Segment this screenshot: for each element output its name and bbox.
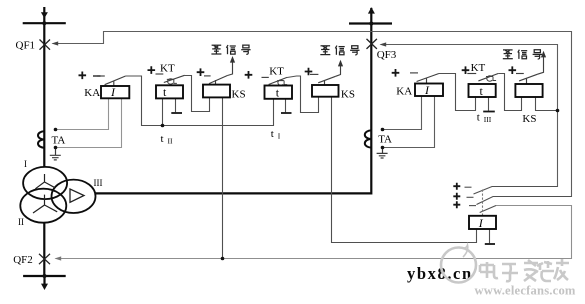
svg-text:II: II	[18, 217, 24, 227]
svg-text:KS: KS	[232, 89, 246, 101]
svg-text:KT: KT	[269, 65, 284, 77]
svg-text:t: t	[161, 133, 164, 145]
svg-text:QF3: QF3	[377, 49, 397, 61]
svg-text:I: I	[24, 159, 27, 169]
svg-text:t: t	[477, 112, 480, 124]
svg-text:KT: KT	[471, 62, 486, 74]
svg-text:t: t	[271, 128, 274, 140]
svg-text:KA: KA	[84, 87, 100, 99]
svg-text:II: II	[168, 137, 173, 146]
svg-text:TA: TA	[378, 133, 392, 145]
svg-text:QF1: QF1	[16, 39, 36, 51]
svg-text:KS: KS	[522, 113, 536, 125]
svg-text:QF2: QF2	[13, 254, 33, 266]
svg-text:III: III	[484, 115, 492, 124]
svg-text:KT: KT	[160, 62, 175, 74]
svg-text:www.elecfans.com: www.elecfans.com	[475, 284, 576, 298]
svg-text:TA: TA	[52, 135, 66, 147]
svg-text:KA: KA	[396, 86, 412, 98]
svg-text:III: III	[94, 178, 103, 188]
svg-text:KS: KS	[341, 89, 355, 101]
